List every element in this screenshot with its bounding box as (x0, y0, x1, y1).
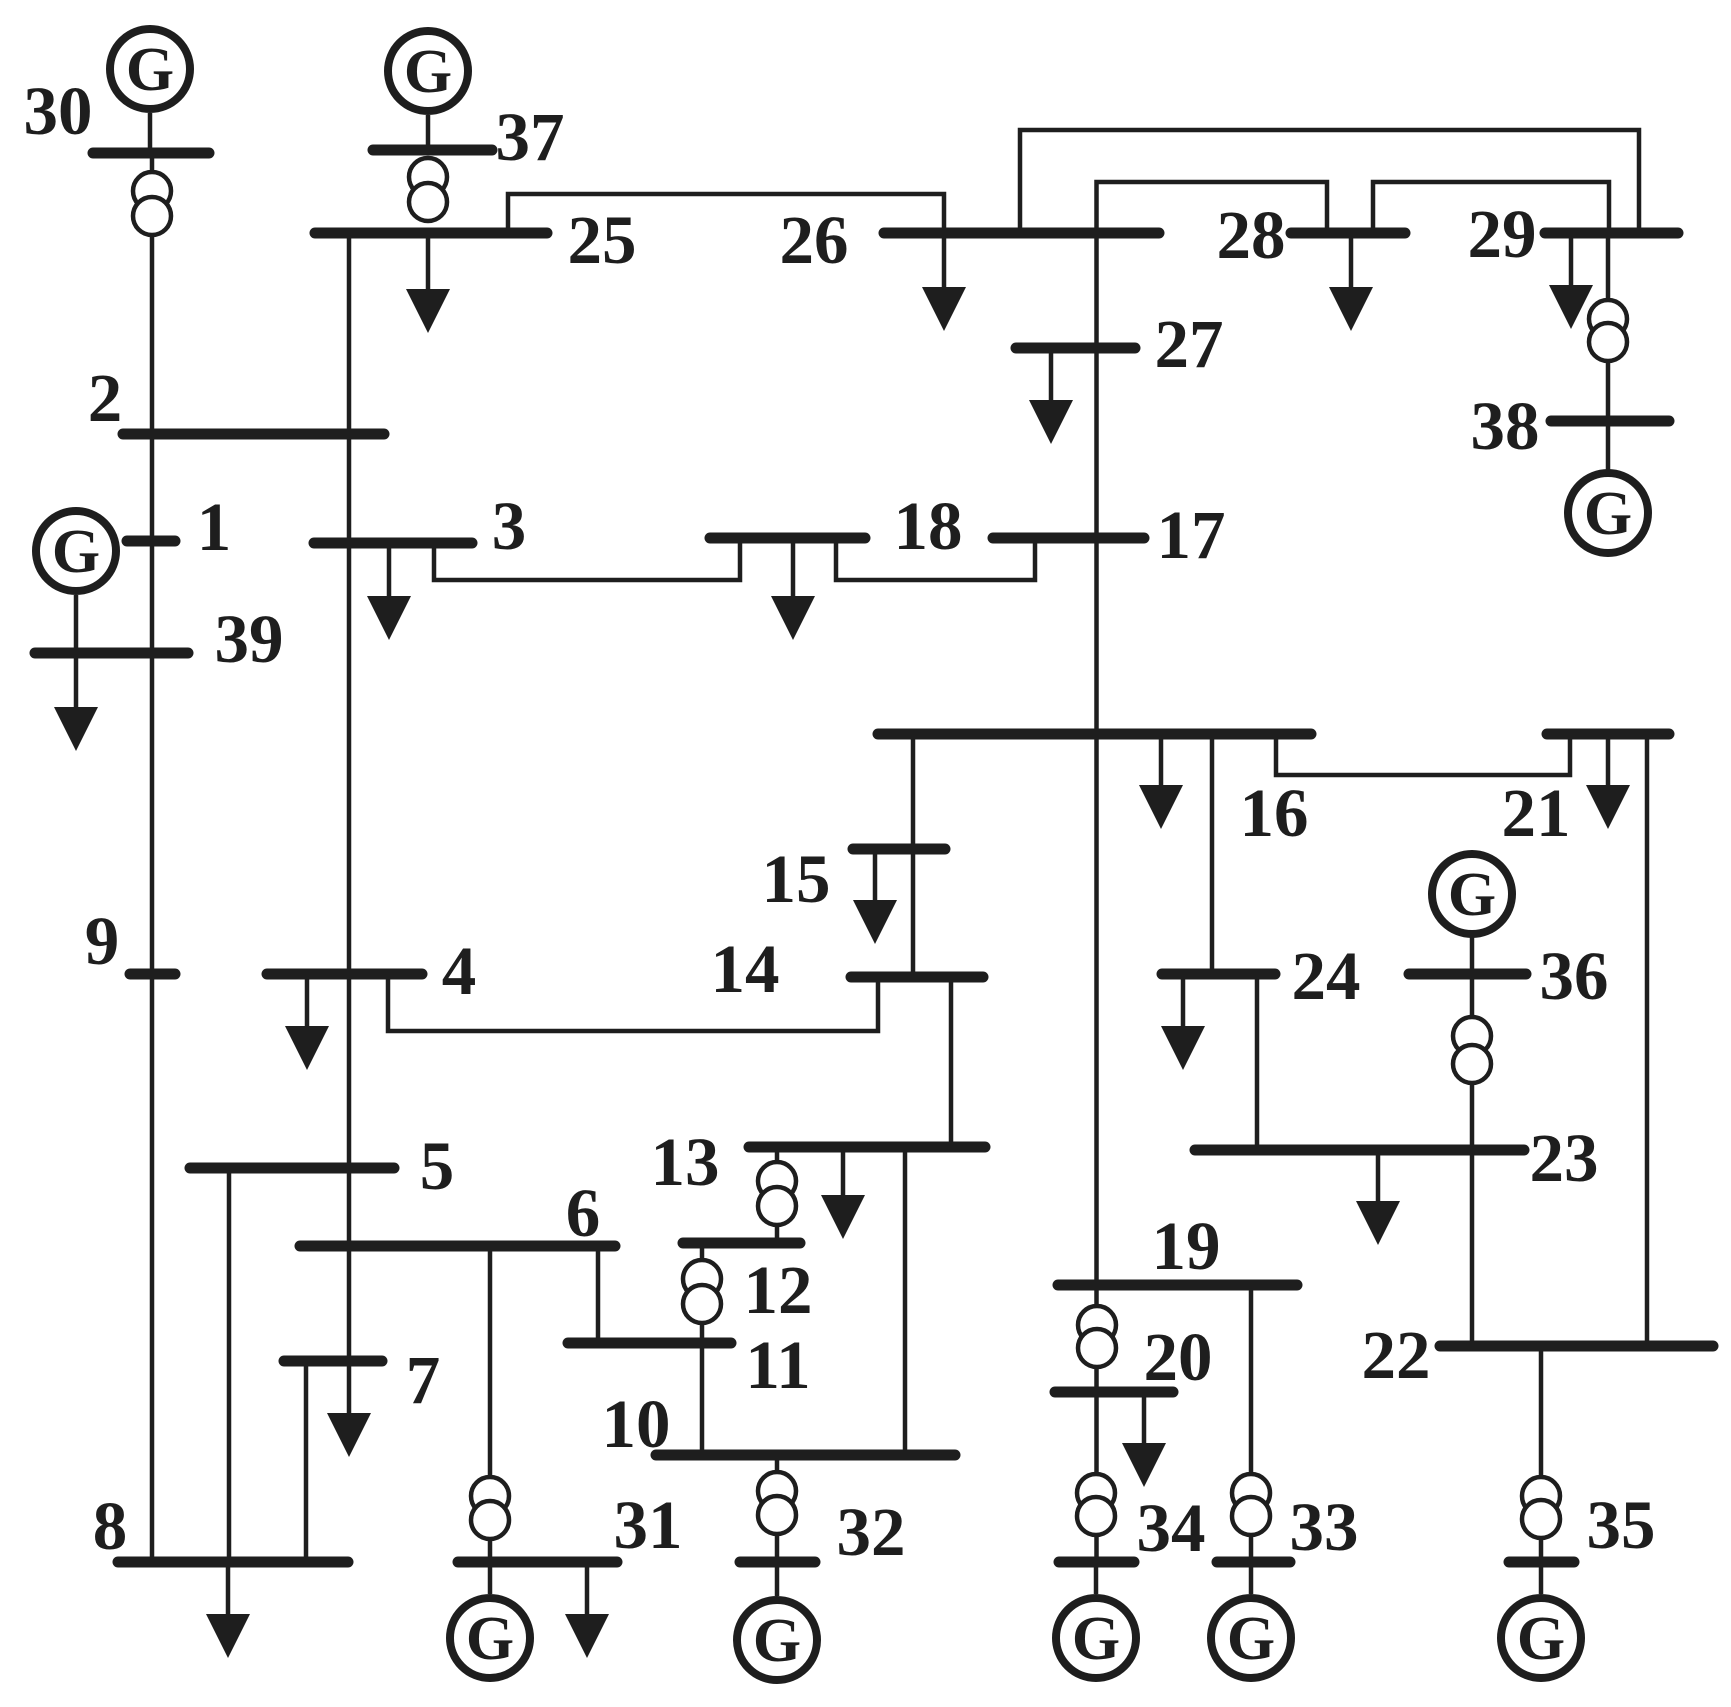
bus 9 (130, 969, 175, 980)
load arrow at bus 7 (327, 1361, 371, 1457)
wire 19-33 transformer branch (1249, 1285, 1254, 1562)
svg-text:2: 2 (88, 360, 123, 436)
bus 23 (1195, 1145, 1524, 1156)
load arrow at bus 20 (1122, 1392, 1166, 1487)
load arrow at bus 21 (1586, 734, 1630, 829)
wire 16-21 (1276, 734, 1570, 775)
transformer 19-20 (1078, 1306, 1116, 1367)
svg-text:38: 38 (1471, 388, 1540, 464)
bus 39 (35, 648, 188, 659)
svg-text:30: 30 (24, 73, 93, 149)
bus 38 (1551, 416, 1669, 427)
svg-text:27: 27 (1155, 306, 1224, 382)
svg-text:22: 22 (1362, 1317, 1431, 1393)
wire 25-26 (508, 194, 944, 233)
bus 28 (1291, 228, 1405, 239)
bus 6 (300, 1241, 615, 1252)
svg-text:8: 8 (93, 1488, 128, 1564)
load arrow at bus 4 (285, 974, 329, 1070)
wire 13-10 (903, 1147, 908, 1455)
svg-text:G: G (466, 1605, 514, 1673)
svg-text:32: 32 (837, 1494, 906, 1570)
bus 27 (1016, 343, 1135, 354)
wire 26-29 (1020, 130, 1639, 233)
transformer 20-34 (1077, 1474, 1115, 1535)
bus 18 (710, 533, 865, 544)
wire 7-8 (304, 1361, 309, 1562)
generator G at bus 37 (388, 31, 468, 111)
wire 28-29 (1373, 182, 1609, 233)
generator G at bus 30 (110, 29, 190, 109)
generator G at bus 33 (1211, 1598, 1291, 1678)
wire 10-32 transformer branch (775, 1455, 780, 1562)
bus 1 (127, 536, 175, 547)
wire 5-8 (227, 1168, 232, 1562)
wire 21-22 (1645, 734, 1650, 1346)
bus 35 (1509, 1557, 1574, 1568)
bus 19 (1058, 1280, 1297, 1291)
bus 20 (1055, 1387, 1173, 1398)
svg-text:31: 31 (614, 1487, 683, 1563)
generator G at bus 38 (1568, 473, 1648, 553)
transformer 6-31 (471, 1477, 509, 1539)
transformer 12-11 (683, 1260, 721, 1323)
svg-text:19: 19 (1152, 1208, 1221, 1284)
wire 13-12 transformer branch (775, 1147, 780, 1243)
svg-text:G: G (1584, 480, 1632, 548)
svg-text:39: 39 (215, 601, 284, 677)
wire 12-11 transformer branch (700, 1243, 705, 1343)
wire 26-28 (1097, 182, 1328, 233)
svg-text:G: G (52, 518, 100, 586)
generator stem G34 (1094, 1562, 1099, 1594)
bus 7 (284, 1356, 382, 1367)
transformer 29-38 (1589, 300, 1627, 361)
transformer 19-33 (1232, 1474, 1270, 1535)
svg-text:6: 6 (566, 1175, 601, 1251)
svg-text:18: 18 (894, 488, 963, 564)
wire 29-38 transformer branch (1606, 233, 1611, 421)
generator stem G33 (1249, 1562, 1254, 1594)
bus 8 (118, 1557, 348, 1568)
svg-text:17: 17 (1157, 497, 1226, 573)
svg-text:12: 12 (744, 1252, 813, 1328)
load arrow at bus 23 (1356, 1150, 1400, 1245)
bus 32 (740, 1557, 815, 1568)
svg-text:14: 14 (711, 931, 780, 1007)
svg-text:1: 1 (197, 489, 232, 565)
svg-text:7: 7 (406, 1342, 441, 1418)
svg-text:24: 24 (1292, 938, 1361, 1014)
svg-text:33: 33 (1290, 1489, 1359, 1565)
transformer 2-30 (133, 172, 171, 235)
wire 16-24 (1210, 734, 1215, 974)
wire 6-31 transformer branch (488, 1246, 493, 1562)
svg-text:20: 20 (1144, 1319, 1213, 1395)
svg-text:36: 36 (1540, 938, 1609, 1014)
svg-text:21: 21 (1502, 775, 1571, 851)
svg-text:23: 23 (1530, 1120, 1599, 1196)
wire 25-2-3-4-5-6-7 vertical (347, 233, 352, 1361)
svg-text:3: 3 (492, 488, 527, 564)
bus 2 (123, 429, 384, 440)
wire 14-13 (949, 977, 954, 1147)
bus 24 (1162, 969, 1275, 980)
load arrow at bus 16 (1139, 734, 1183, 829)
bus 4 (267, 969, 422, 980)
wire 26-27-17-16-19-20-34 vertical (1094, 233, 1099, 1562)
load arrow at bus 3 (367, 543, 411, 640)
bus 12 (683, 1238, 800, 1249)
bus 26 (884, 228, 1159, 239)
generator stem G38 (1606, 421, 1611, 470)
svg-text:25: 25 (568, 202, 637, 278)
svg-text:G: G (1227, 1605, 1275, 1673)
transformer 22-35 (1522, 1477, 1560, 1538)
svg-text:35: 35 (1587, 1487, 1656, 1563)
transformer 25-37 (409, 158, 447, 221)
svg-text:G: G (404, 38, 452, 106)
bus 16 (878, 729, 1311, 740)
bus 29 (1545, 228, 1678, 239)
svg-text:G: G (1517, 1605, 1565, 1673)
generator stem G31 (488, 1562, 493, 1594)
generator stem G39 (74, 595, 79, 653)
svg-text:G: G (126, 36, 174, 104)
bus 17 (993, 533, 1144, 544)
load arrow at bus 15 (853, 849, 897, 944)
wire 3-18 (434, 543, 740, 580)
svg-text:9: 9 (85, 903, 120, 979)
svg-text:26: 26 (780, 202, 849, 278)
bus 11 (568, 1338, 731, 1349)
svg-text:G: G (753, 1607, 801, 1675)
load arrow at bus 31 (565, 1562, 609, 1658)
bus 10 (656, 1450, 955, 1461)
generator G at bus 35 (1501, 1598, 1581, 1678)
generator G at bus 34 (1056, 1598, 1136, 1678)
svg-text:34: 34 (1137, 1490, 1206, 1566)
wire 22-35 transformer branch (1539, 1346, 1544, 1562)
wire 30-2-1-39-9-8 vertical (150, 153, 155, 1562)
svg-text:5: 5 (420, 1128, 455, 1204)
wire 18-17 (836, 543, 1035, 580)
svg-text:37: 37 (496, 99, 565, 175)
bus 36 (1409, 969, 1526, 980)
bus 25 (315, 228, 547, 239)
svg-text:28: 28 (1217, 197, 1286, 273)
bus 22 (1440, 1341, 1713, 1352)
transformer 13-12 (758, 1162, 796, 1225)
load arrow at bus 13 (821, 1147, 865, 1239)
transformer 10-32 (758, 1472, 796, 1534)
bus 30 (93, 148, 209, 159)
load arrow at bus 29 (1549, 233, 1593, 329)
wire 36-23-22 vertical (1470, 974, 1475, 1346)
bus 3 (314, 538, 472, 549)
load arrow at bus 24 (1161, 974, 1205, 1070)
load arrow at bus 39 (54, 653, 98, 751)
bus 34 (1059, 1557, 1134, 1568)
load arrow at bus 25 (406, 233, 450, 333)
generator stem G32 (775, 1562, 780, 1596)
generator stem G37 (426, 115, 431, 150)
bus 21 (1547, 729, 1669, 740)
wire 16-15 (911, 734, 916, 849)
svg-text:G: G (1072, 1605, 1120, 1673)
svg-text:G: G (1448, 861, 1496, 929)
svg-text:29: 29 (1468, 196, 1537, 272)
svg-text:4: 4 (442, 933, 477, 1009)
generator stem G35 (1539, 1562, 1544, 1594)
wire 6-11 (596, 1246, 601, 1343)
generator G at bus 39 (36, 511, 116, 591)
bus 14 (851, 972, 983, 983)
load arrow at bus 27 (1029, 348, 1073, 444)
generator G at bus 36 (1432, 854, 1512, 934)
generator stem G36 (1470, 937, 1475, 974)
wire 4-14 (388, 974, 878, 1031)
bus 13 (749, 1142, 985, 1153)
wire 24-23 (1255, 974, 1260, 1150)
load arrow at bus 18 (771, 543, 815, 640)
load arrow at bus 28 (1329, 233, 1373, 331)
svg-text:13: 13 (651, 1124, 720, 1200)
bus 5 (190, 1163, 394, 1174)
wire 11-10 (700, 1343, 705, 1455)
svg-text:11: 11 (745, 1327, 810, 1403)
bus 33 (1217, 1557, 1290, 1568)
svg-text:15: 15 (762, 841, 831, 917)
generator G at bus 31 (450, 1598, 530, 1678)
generator G at bus 32 (737, 1600, 817, 1680)
bus 37 (373, 145, 492, 156)
bus 31 (458, 1557, 617, 1568)
bus 15 (853, 844, 945, 855)
svg-text:10: 10 (602, 1386, 671, 1462)
load arrow at bus 8 (206, 1562, 250, 1658)
generator stem G30 (148, 113, 153, 153)
load arrow at bus 26 (922, 233, 966, 331)
svg-text:16: 16 (1240, 775, 1309, 851)
wire 15-14 (911, 849, 916, 977)
transformer 23-36 (1453, 1017, 1491, 1083)
